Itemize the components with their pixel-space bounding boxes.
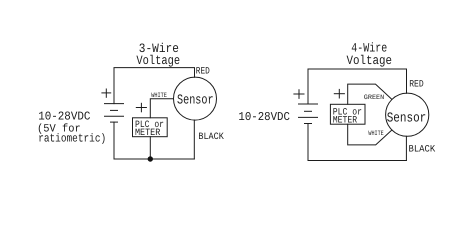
svg-text:GREEN: GREEN [364,94,384,102]
svg-text:Sensor: Sensor [387,112,427,127]
svg-text:METER: METER [333,114,358,125]
svg-text:RED: RED [409,78,424,89]
svg-text:Voltage: Voltage [347,53,393,68]
svg-text:ratiometric): ratiometric) [38,132,106,145]
svg-text:10-28VDC: 10-28VDC [38,110,90,124]
svg-text:WHITE: WHITE [368,130,383,138]
svg-text:Sensor: Sensor [177,94,214,109]
svg-text:BLACK: BLACK [198,131,224,142]
svg-text:Voltage: Voltage [136,53,180,68]
svg-text:BLACK: BLACK [409,143,436,154]
svg-text:WHITE: WHITE [151,92,167,100]
svg-text:10-28VDC: 10-28VDC [238,110,290,124]
svg-text:RED: RED [196,65,210,76]
svg-text:METER: METER [135,127,160,138]
